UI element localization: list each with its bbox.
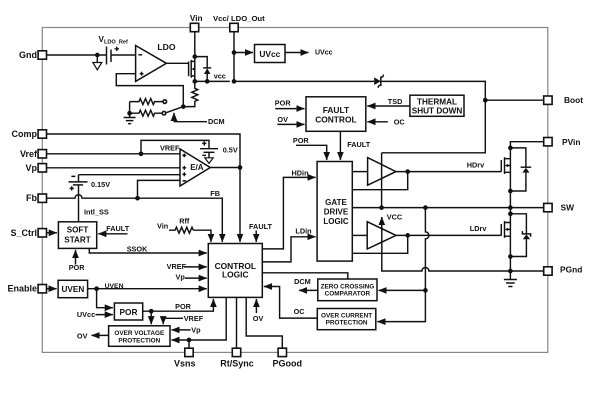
wire control to gate drive bottom <box>262 273 348 279</box>
wire Fb net with hop <box>47 189 223 242</box>
svg-text:PROTECTION: PROTECTION <box>326 320 368 327</box>
svg-text:VREF: VREF <box>167 262 187 271</box>
svg-text:Vp: Vp <box>176 273 186 282</box>
block UVEN <box>58 280 88 297</box>
wire UVcc output stub <box>285 50 333 57</box>
svg-text:LDO: LDO <box>157 42 175 52</box>
svg-text:FAULT: FAULT <box>106 224 130 233</box>
wire zero-cross sense riser with hop <box>377 208 429 322</box>
wire OV into control logic bottom <box>253 299 264 323</box>
node source/VCC <box>192 79 197 84</box>
resistor DCM sense <box>183 81 198 106</box>
pin PVin <box>544 137 581 147</box>
svg-text:VCC: VCC <box>387 213 403 222</box>
svg-text:Boot: Boot <box>564 95 583 105</box>
diode bootstrap <box>234 75 383 88</box>
wire PVin to high FET drain <box>508 142 544 159</box>
svg-text:OC: OC <box>394 118 406 127</box>
svg-text:Vp: Vp <box>25 163 37 173</box>
svg-text:vcc: vcc <box>214 72 226 81</box>
wire HDin <box>262 168 315 249</box>
pin Vsns <box>174 348 196 368</box>
wire S_Ctrl to soft start <box>47 232 57 234</box>
wire UVEN to POR block <box>97 289 113 308</box>
wire DCM output stub <box>294 277 318 290</box>
svg-text:OV: OV <box>253 314 264 323</box>
block SOFT START <box>58 222 96 249</box>
wire battery to E/A input <box>79 175 181 182</box>
svg-text:LOGIC: LOGIC <box>323 217 349 226</box>
svg-text:0.5V: 0.5V <box>223 146 238 155</box>
resistor divider upper <box>130 99 167 105</box>
transistor high-side FET <box>501 157 510 207</box>
buffer low-side driver <box>352 222 396 249</box>
svg-text:UVEN: UVEN <box>62 285 85 294</box>
wire LDO output to pass FET gate <box>166 62 188 64</box>
node Gnd/cap junction <box>95 53 100 58</box>
wire Vp input <box>47 167 181 169</box>
wire POR into soft start <box>69 250 86 272</box>
svg-text:UVcc: UVcc <box>77 310 95 319</box>
svg-text:FAULT: FAULT <box>323 105 350 115</box>
pin Vp <box>25 163 46 173</box>
svg-text:GATE: GATE <box>325 198 347 207</box>
transistor low-side FET <box>501 221 510 271</box>
wire Vref input <box>47 151 181 156</box>
diode low FET body (schottky) <box>508 214 531 259</box>
svg-text:Vsns: Vsns <box>174 358 196 368</box>
svg-text:PROTECTION: PROTECTION <box>118 338 160 345</box>
svg-text:POR: POR <box>69 263 86 272</box>
svg-text:FAULT: FAULT <box>347 140 371 149</box>
buffer high-side driver <box>352 158 396 186</box>
wire OV into fault control <box>277 115 304 124</box>
wire Vsns to OVP and control logic <box>172 297 227 348</box>
svg-text:Vcc/ LDO_Out: Vcc/ LDO_Out <box>213 14 265 23</box>
wire FAULT into control logic top <box>249 222 273 242</box>
block CONTROL LOGIC <box>208 244 262 298</box>
wire to UVcc block <box>234 52 253 54</box>
capacitor V_LDO_Ref <box>99 35 129 65</box>
wire DCM control <box>174 113 225 126</box>
block THERMAL SHUT DOWN <box>410 95 464 116</box>
svg-text:LDin: LDin <box>295 226 311 235</box>
svg-text:LDrv: LDrv <box>470 224 488 233</box>
resistor Rff <box>157 217 211 242</box>
svg-text:OV: OV <box>277 115 288 124</box>
wire SW rail <box>352 205 543 210</box>
svg-text:PGnd: PGnd <box>560 264 582 274</box>
svg-text:SHUT DOWN: SHUT DOWN <box>412 106 463 115</box>
svg-text:UVcc: UVcc <box>259 49 280 59</box>
wire POR into fault control <box>275 98 305 108</box>
svg-text:Vin: Vin <box>190 14 203 23</box>
diode LDO clamp <box>195 57 211 84</box>
svg-text:Rff: Rff <box>179 217 190 226</box>
svg-text:0.15V: 0.15V <box>91 180 110 189</box>
svg-text:Vp: Vp <box>191 326 201 335</box>
node E/A output <box>238 165 243 170</box>
pin Vcc/LDO_Out <box>213 14 265 32</box>
pin Vref <box>20 149 47 159</box>
block OVER CURRENT PROTECTION <box>317 309 376 330</box>
wire LDO feedback loop <box>116 74 183 107</box>
svg-text:HDrv: HDrv <box>467 161 485 170</box>
svg-text:SSOK: SSOK <box>127 244 148 253</box>
resistor divider lower <box>130 110 166 116</box>
wire VCC supply arrow low driver <box>382 213 403 229</box>
wire E/A output <box>210 167 240 169</box>
pin Comp <box>12 129 47 139</box>
svg-text:CONTROL: CONTROL <box>315 114 356 124</box>
svg-text:OVER CURRENT: OVER CURRENT <box>321 312 372 319</box>
svg-text:DCM: DCM <box>294 277 311 286</box>
IC outer boundary <box>42 28 548 353</box>
svg-text:OC: OC <box>294 307 306 316</box>
wire POR output to control logic <box>143 299 214 314</box>
ground divider <box>124 118 136 124</box>
svg-text:E/A: E/A <box>190 163 204 172</box>
svg-text:POR: POR <box>120 307 138 317</box>
svg-text:POR: POR <box>293 136 310 145</box>
svg-text:TSD: TSD <box>388 97 403 106</box>
ground 0.5V (analog gnd arrow) <box>205 152 213 163</box>
svg-text:Rt/Sync: Rt/Sync <box>220 358 254 368</box>
ground power gnd <box>504 271 517 287</box>
switch DCM mode <box>167 107 184 113</box>
svg-text:Intl_SS: Intl_SS <box>84 207 109 216</box>
wire Vin to FET drain <box>194 32 196 62</box>
svg-text:PVin: PVin <box>562 137 580 147</box>
svg-text:UVcc: UVcc <box>315 50 333 57</box>
ground (signal gnd arrow) <box>93 55 102 70</box>
pin Vin <box>190 14 203 32</box>
wire OC into fault control <box>367 118 405 127</box>
wire VREF into OVP <box>163 314 204 324</box>
block FAULT CONTROL <box>306 97 366 132</box>
wire low driver rail to PGnd rail <box>382 217 544 271</box>
svg-text:FB: FB <box>210 189 220 198</box>
wire POR to OVP <box>150 311 152 324</box>
svg-text:VREF: VREF <box>184 314 204 323</box>
wire LDin <box>262 226 315 262</box>
wire Vcc/LDO_Out vertical <box>232 32 237 84</box>
wire Comp to E/A output riser <box>47 134 241 242</box>
wire boot rail through driver to SW <box>381 153 383 208</box>
wire Vp into control logic <box>176 273 207 282</box>
svg-text:THERMAL: THERMAL <box>417 97 457 106</box>
wire OV output stub <box>77 331 109 340</box>
wire HDrv <box>396 161 501 174</box>
wire VCC output of LDO <box>195 72 230 82</box>
wire VREF into control logic <box>167 262 207 271</box>
svg-text:SW: SW <box>561 203 575 213</box>
wire Intl_SS (battery to soft start) <box>79 185 109 222</box>
wire Enable to UVEN <box>47 288 57 290</box>
svg-text:ZERO CROSSING: ZERO CROSSING <box>321 284 375 291</box>
wire into zero crossing comparator <box>379 289 426 291</box>
op-amp LDO <box>136 42 176 81</box>
svg-text:S_Ctrl: S_Ctrl <box>10 228 37 238</box>
wire FB branch to E/A <box>138 180 181 198</box>
wire FAULT to gate drive <box>340 131 370 160</box>
wire Vp into OVP <box>172 326 202 335</box>
node divider/switch <box>181 104 186 109</box>
block UVcc <box>255 45 286 63</box>
battery 0.15V offset <box>69 176 111 190</box>
wire PGood riser <box>246 297 282 348</box>
svg-text:DRIVE: DRIVE <box>324 207 349 216</box>
wire divider left leg <box>127 102 132 118</box>
svg-text:START: START <box>64 236 90 245</box>
svg-text:POR: POR <box>175 302 192 311</box>
wire SSOK <box>89 244 207 253</box>
pin Boot <box>544 95 584 105</box>
battery 0.5V reference <box>200 141 238 155</box>
wire boot rail to high driver <box>382 100 486 153</box>
svg-text:LOGIC: LOGIC <box>222 270 249 280</box>
pin PGood <box>273 348 303 368</box>
svg-text:OVER VOLTAGE: OVER VOLTAGE <box>114 330 165 337</box>
svg-text:FAULT: FAULT <box>249 222 273 231</box>
svg-text:COMPARATOR: COMPARATOR <box>325 291 371 298</box>
wire FAULT into soft start <box>98 224 130 234</box>
node Vin/diode junction <box>192 54 197 59</box>
block GATE DRIVE LOGIC <box>317 162 352 262</box>
wire LDrv <box>396 224 501 238</box>
pin S_Ctrl <box>10 228 46 238</box>
pin Fb <box>26 193 47 203</box>
svg-text:VREF: VREF <box>160 143 180 152</box>
wire Rt/Sync riser <box>236 297 238 348</box>
svg-text:HDin: HDin <box>292 168 309 177</box>
svg-text:POR: POR <box>275 98 292 107</box>
block POR <box>114 303 142 320</box>
block ZERO CROSSING COMPARATOR <box>318 279 377 301</box>
pin PGnd <box>544 264 583 275</box>
wire SW to low FET drain <box>508 208 513 223</box>
svg-text:Comp: Comp <box>12 129 38 139</box>
wire VREF branch <box>141 140 209 153</box>
svg-text:Enable: Enable <box>7 284 37 294</box>
wire boot rail to Boot pin <box>381 81 543 102</box>
svg-text:UVEN: UVEN <box>105 283 124 290</box>
op-amp E/A error amplifier <box>180 149 210 186</box>
wire OC from OCP to control logic <box>264 287 318 319</box>
wire low driver feedback <box>352 235 407 253</box>
wire Gnd net <box>47 54 136 56</box>
block OVER VOLTAGE PROTECTION <box>109 326 170 347</box>
pin SW <box>544 203 574 213</box>
pin Enable <box>7 284 46 294</box>
transistor LDO pass FET <box>189 60 195 78</box>
wire high driver feedback <box>352 172 407 190</box>
diode high FET body <box>508 148 531 193</box>
wire POR to gate drive <box>293 136 327 160</box>
svg-text:OV: OV <box>77 331 88 340</box>
wire TSD <box>367 97 410 106</box>
svg-text:Vin: Vin <box>157 221 168 230</box>
svg-text:Fb: Fb <box>26 193 37 203</box>
svg-text:PGood: PGood <box>273 358 303 368</box>
node PGnd junction <box>508 269 513 274</box>
pin Rt/Sync <box>220 348 254 368</box>
svg-text:Vref: Vref <box>20 149 38 159</box>
svg-text:SOFT: SOFT <box>67 226 89 235</box>
wire UVEN to control logic <box>88 283 207 291</box>
pin Gnd <box>19 50 47 60</box>
wire UVcc into POR block <box>77 310 113 319</box>
svg-text:DCM: DCM <box>208 117 225 126</box>
svg-text:Gnd: Gnd <box>19 50 37 60</box>
